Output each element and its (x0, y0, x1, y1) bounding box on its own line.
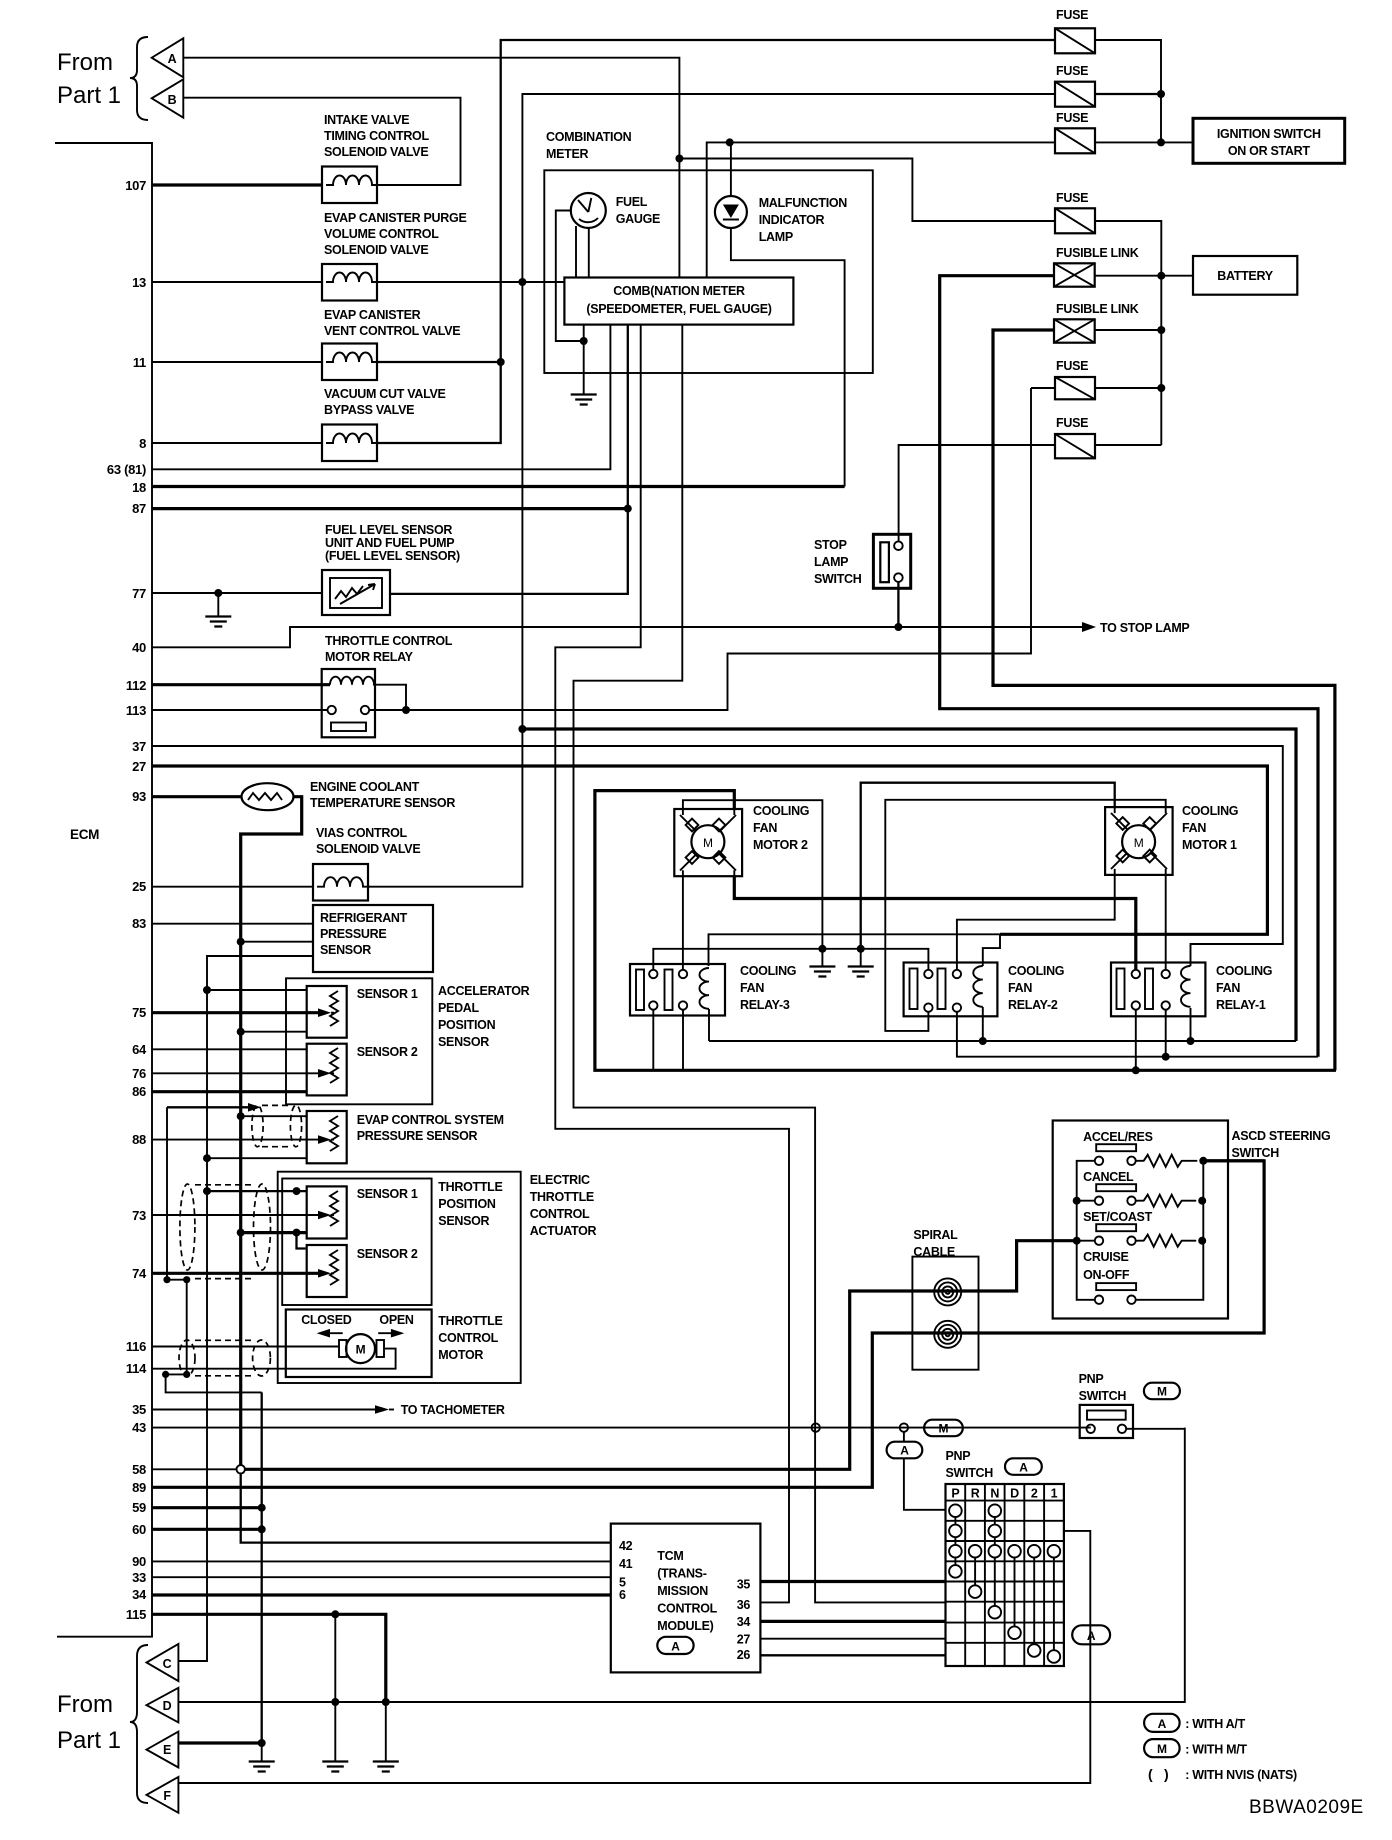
arrow into TPS sensor1 (318, 1211, 331, 1220)
ground (D-335) (322, 1762, 348, 1772)
svg-text:CONTROL: CONTROL (657, 1602, 717, 1616)
motor1 top-right wire to relay2 (885, 800, 1165, 1031)
node drain/TPS shield (163, 1276, 170, 1283)
node pin77 ground junction (214, 589, 222, 597)
wire FL1 out to battery (1095, 275, 1193, 277)
node pin11/fuse1 riser (497, 358, 505, 366)
svg-text:FUSIBLE LINK: FUSIBLE LINK (1056, 302, 1139, 316)
svg-text:RELAY-3: RELAY-3 (740, 998, 790, 1012)
svg-text:M: M (1157, 1385, 1167, 1399)
svg-text:SOLENOID VALVE: SOLENOID VALVE (324, 145, 428, 159)
svg-text:37: 37 (132, 739, 146, 754)
svg-text:COMB(NATION METER: COMB(NATION METER (613, 284, 745, 298)
svg-text:1: 1 (1051, 1487, 1058, 1501)
svg-text:SWITCH: SWITCH (814, 572, 862, 586)
connector circle at A/T branch (900, 1423, 908, 1431)
svg-text:COOLING: COOLING (753, 804, 809, 818)
svg-text:40: 40 (132, 640, 146, 655)
svg-text:60: 60 (132, 1522, 146, 1537)
wire F3 out to ignition switch (1095, 141, 1193, 143)
shield (throttle motor, dashed) (179, 1340, 195, 1376)
ground (E drain) (249, 1762, 275, 1772)
node TPS gnd b (293, 1229, 301, 1237)
svg-text:90: 90 (132, 1554, 146, 1569)
TPS sensor 1 (box) (307, 1186, 347, 1238)
svg-text:F: F (163, 1789, 171, 1803)
svg-text:FAN: FAN (1008, 981, 1032, 995)
wire pin13 to combination meter (377, 281, 564, 283)
relay3 coil bottom stub (708, 1009, 710, 1041)
node F5/battery bus (1157, 384, 1165, 392)
wire FL2 in (cooling fan feed) (993, 330, 1335, 1070)
PNP A grid box (946, 1484, 1064, 1666)
wire FL2 out (1095, 329, 1162, 331)
svg-text:(TRANS-: (TRANS- (657, 1567, 706, 1581)
wire F6 in (stop lamp feed) (899, 445, 1055, 541)
cooling fan relay-2 (904, 963, 998, 1017)
wire pin8 to fuse1 riser and up to fuse 1 (377, 40, 1055, 443)
legend oval A (1144, 1714, 1180, 1732)
combination meter inner box (564, 278, 793, 325)
svg-text:113: 113 (126, 703, 146, 718)
throttle control motor relay (box) (322, 669, 375, 737)
svg-text:A: A (168, 52, 177, 66)
arrow open (right) (378, 1332, 396, 1334)
svg-text:Part 1: Part 1 (57, 1727, 121, 1754)
wire E to drain bus (178, 1741, 261, 1744)
svg-text:A: A (1019, 1460, 1028, 1474)
svg-text:FAN: FAN (753, 821, 777, 835)
motor1 bottom-left to relay2 TC (957, 875, 1115, 971)
svg-text:MOTOR 1: MOTOR 1 (1182, 838, 1237, 852)
svg-text:ACCEL/RES: ACCEL/RES (1083, 1130, 1153, 1144)
node relay2 coil/bus (979, 1037, 987, 1045)
arrow TO STOP LAMP (1082, 622, 1096, 632)
node E/drain (258, 1739, 266, 1747)
battery box (1193, 256, 1297, 295)
node stop lamp switch / pin40 (894, 623, 902, 631)
svg-text:33: 33 (132, 1570, 146, 1585)
ground (combination meter) (571, 395, 597, 405)
svg-text:87: 87 (132, 501, 146, 516)
svg-text:VENT CONTROL VALVE: VENT CONTROL VALVE (324, 324, 460, 338)
svg-text:COOLING: COOLING (740, 964, 796, 978)
connector triangle E (147, 1732, 179, 1768)
connector triangle B (152, 79, 184, 117)
svg-text:GAUGE: GAUGE (616, 212, 660, 226)
fusible link FL2 (1054, 319, 1095, 342)
svg-text:83: 83 (132, 916, 146, 931)
intake valve timing control solenoid valve (coil) (322, 167, 377, 204)
evap pressure sensor 5V wire (207, 1157, 307, 1159)
thick bus 729 to relay coils (522, 729, 1296, 1041)
cooling fan relay-3 (630, 964, 725, 1016)
svg-text:RELAY-1: RELAY-1 (1216, 998, 1266, 1012)
node TPS 5V b (293, 1187, 301, 1195)
node drain/motor shield (183, 1371, 190, 1378)
svg-text:FUSE: FUSE (1056, 191, 1088, 205)
svg-text:FAN: FAN (1182, 821, 1206, 835)
fuel gauge left wire (556, 211, 584, 342)
ignition switch box (1193, 118, 1345, 163)
stop lamp switch bottom wire (897, 582, 899, 627)
arrow into APP sensor1 (318, 1008, 331, 1017)
MIL top wire to fuse3 (707, 142, 1055, 277)
arrow closed (left) (325, 1332, 343, 1334)
svg-text:From: From (57, 1691, 113, 1718)
svg-text:COOLING: COOLING (1008, 964, 1064, 978)
svg-text:PNP: PNP (946, 1449, 971, 1463)
throttle control motor symbol (346, 1334, 375, 1363)
node fuel gauge ground junction (580, 337, 588, 345)
fuel level sensor unit (box) (322, 570, 390, 615)
node evap gnd (237, 1112, 245, 1120)
svg-text:58: 58 (132, 1462, 146, 1477)
APP sensor1 ground wire (241, 1031, 307, 1033)
svg-text:FUSE: FUSE (1056, 64, 1088, 78)
svg-text:BYPASS VALVE: BYPASS VALVE (324, 403, 414, 417)
wire A-branch to fuse4 (679, 159, 1055, 222)
svg-text:D: D (163, 1699, 172, 1713)
svg-text:FUSIBLE LINK: FUSIBLE LINK (1056, 246, 1139, 260)
wire pin11 out (377, 361, 501, 363)
svg-text:114: 114 (126, 1361, 147, 1376)
evap canister vent control valve (coil) (322, 344, 377, 381)
svg-text:TIMING CONTROL: TIMING CONTROL (324, 129, 429, 143)
svg-text:75: 75 (132, 1005, 146, 1020)
svg-text:ECM: ECM (70, 827, 99, 842)
svg-text:ACCELERATOR: ACCELERATOR (438, 984, 530, 998)
ground (D-385) (373, 1762, 399, 1772)
svg-text:35: 35 (132, 1402, 146, 1417)
connector circle on pin43 wire (812, 1423, 820, 1431)
drain riser (166, 1107, 262, 1392)
svg-text:ACTUATOR: ACTUATOR (530, 1224, 597, 1238)
TCM 27 wire (760, 1638, 945, 1640)
vias control solenoid valve (coil) (313, 864, 368, 901)
svg-text:SENSOR: SENSOR (438, 1214, 489, 1228)
node F3/ignition bus (1157, 138, 1165, 146)
shield drain arrow (APP) (167, 1106, 248, 1108)
grid column chains (955, 1505, 1054, 1657)
electric throttle control actuator (outer box) (278, 1172, 521, 1383)
relay1 BL wire (1135, 1010, 1137, 1071)
arrow TO TACHOMETER (375, 1405, 389, 1414)
node ground 2 (857, 945, 865, 953)
svg-text:(SPEEDOMETER, FUEL GAUGE): (SPEEDOMETER, FUEL GAUGE) (586, 302, 771, 316)
wire vias to fuse2 riser (368, 94, 1055, 887)
refrigerant sensor ground wire (241, 941, 313, 943)
oval A tag below pin43 (903, 1432, 905, 1442)
svg-text:M: M (703, 836, 713, 850)
APP sensor 1 (box) (307, 986, 347, 1038)
svg-text:34: 34 (132, 1587, 147, 1602)
svg-text:A: A (671, 1639, 680, 1653)
svg-text:CONTROL: CONTROL (530, 1207, 590, 1221)
oval A tag in TCM (657, 1637, 693, 1654)
node thick bus / fuse2 riser (518, 725, 526, 733)
svg-text:SENSOR 2: SENSOR 2 (357, 1045, 418, 1059)
svg-text:35: 35 (737, 1578, 751, 1592)
pin 27 wire to relay3/relay2 coils (709, 934, 1001, 966)
wire D to PNP switch M (178, 1428, 1184, 1702)
svg-text:OPEN: OPEN (379, 1313, 413, 1327)
relay top ground wire (653, 949, 928, 971)
brace bottom (130, 1645, 148, 1803)
connector triangle C (147, 1644, 179, 1681)
ground (fan 2) (860, 949, 862, 966)
relay2 BC wire (957, 1012, 1318, 1057)
wire F1 out (1095, 40, 1161, 142)
wire F5 out (1095, 387, 1162, 389)
oval A tag on chain (1072, 1625, 1110, 1644)
svg-text:34: 34 (737, 1615, 751, 1629)
svg-text:TEMPERATURE SENSOR: TEMPERATURE SENSOR (310, 796, 455, 810)
fuse F1 (1055, 28, 1095, 53)
inner box ground stub (583, 325, 585, 394)
ECM left rail (55, 143, 152, 1637)
relay coil output jog (375, 685, 406, 710)
TPS sensor1 5V wire (207, 1190, 307, 1192)
relay2 coil bottom stub (982, 1007, 984, 1041)
svg-text:M: M (1157, 1742, 1167, 1756)
ASCD left bus (1077, 1161, 1095, 1300)
svg-text:VOLUME CONTROL: VOLUME CONTROL (324, 227, 439, 241)
svg-text:METER: METER (546, 147, 589, 161)
svg-text:POSITION: POSITION (438, 1018, 496, 1032)
svg-text:INDICATOR: INDICATOR (759, 213, 825, 227)
speedo signal wire 1 (to TCM 36) (555, 325, 789, 1603)
combination meter (outer box) (544, 170, 873, 373)
svg-text:ON OR START: ON OR START (1228, 144, 1311, 158)
svg-text:SENSOR 2: SENSOR 2 (357, 1247, 418, 1261)
svg-text:PNP: PNP (1079, 1372, 1104, 1386)
fuse F2 (1055, 82, 1095, 107)
node A-wire branch to fuse4 (675, 155, 683, 163)
svg-text:TCM: TCM (657, 1549, 683, 1563)
cooling fan relay-1 (1111, 963, 1205, 1017)
svg-text:SOLENOID VALVE: SOLENOID VALVE (324, 243, 428, 257)
svg-text:LAMP: LAMP (759, 230, 793, 244)
svg-text:115: 115 (126, 1607, 146, 1622)
wire F2 out (1095, 93, 1161, 95)
svg-text:74: 74 (132, 1266, 147, 1281)
node pin60/drain (258, 1525, 266, 1533)
node TPS 5V a (203, 1187, 211, 1195)
node FL2/battery bus (1157, 326, 1165, 334)
engine coolant temperature sensor (242, 783, 294, 810)
svg-text:59: 59 (132, 1500, 146, 1515)
svg-text:FUEL: FUEL (616, 195, 648, 209)
grid right wire to A-chain (1064, 1531, 1090, 1537)
malfunction indicator lamp (715, 196, 747, 228)
svg-text:CLOSED: CLOSED (301, 1313, 352, 1327)
connector circle pin58/sensor ground (237, 1465, 245, 1473)
evap control system pressure sensor (box) (307, 1111, 347, 1163)
svg-text:EVAP CONTROL SYSTEM: EVAP CONTROL SYSTEM (357, 1113, 504, 1127)
TCM 26 wire (760, 1654, 945, 1656)
svg-text:E: E (163, 1743, 171, 1757)
svg-text:CRUISE: CRUISE (1083, 1250, 1128, 1264)
oval M label (1144, 1383, 1180, 1400)
svg-text:B: B (168, 93, 177, 107)
TPS sensor2 top jog (297, 1233, 306, 1249)
svg-text:M: M (939, 1422, 949, 1436)
svg-text:POSITION: POSITION (438, 1197, 496, 1211)
svg-text:A: A (1087, 1629, 1096, 1643)
TCM box (611, 1524, 761, 1673)
svg-text:BATTERY: BATTERY (1217, 269, 1273, 283)
ASCD right bus (1136, 1161, 1204, 1300)
svg-text:Part 1: Part 1 (57, 82, 121, 109)
svg-text:SWITCH: SWITCH (1079, 1389, 1127, 1403)
node pin13/fuse2 junction (518, 278, 526, 286)
APP sensor1 5V wire (207, 989, 307, 991)
cooling fan motor 1 (1105, 807, 1173, 875)
TCM 34 wire (760, 1620, 945, 1623)
svg-text:STOP: STOP (814, 538, 847, 552)
node D/riser385 (382, 1698, 390, 1706)
node APP gnd (237, 1028, 245, 1036)
svg-text:93: 93 (132, 789, 146, 804)
svg-text:86: 86 (132, 1084, 146, 1099)
svg-text:TO STOP LAMP: TO STOP LAMP (1100, 621, 1189, 635)
svg-text:SENSOR 1: SENSOR 1 (357, 1187, 418, 1201)
svg-text:FUSE: FUSE (1056, 416, 1088, 430)
svg-text:11: 11 (133, 355, 146, 370)
svg-text:SWITCH: SWITCH (1232, 1146, 1280, 1160)
svg-text:63 (81): 63 (81) (107, 462, 146, 477)
svg-text:13: 13 (132, 275, 146, 290)
svg-text:INTAKE VALVE: INTAKE VALVE (324, 113, 409, 127)
svg-text:SENSOR: SENSOR (438, 1035, 489, 1049)
svg-text:ON-OFF: ON-OFF (1083, 1268, 1130, 1282)
fuel gauge signal riser (390, 325, 628, 594)
wire F to PNP switch A (178, 1537, 1090, 1783)
ASCD steering switch box (1053, 1121, 1228, 1319)
oval M tag on pin43 wire (924, 1420, 963, 1437)
svg-text:IGNITION SWITCH: IGNITION SWITCH (1217, 127, 1321, 141)
PNP M right wire (1126, 1428, 1185, 1430)
node relay1 coil/bus (1187, 1037, 1195, 1045)
evap pressure sensor ground wire (241, 1115, 307, 1117)
spiral coil 1 (934, 1278, 961, 1305)
node ground 1 (818, 945, 826, 953)
svg-text:PRESSURE SENSOR: PRESSURE SENSOR (357, 1129, 478, 1143)
spiral coil 2 (934, 1321, 961, 1348)
svg-text:From: From (57, 49, 113, 76)
wire F4 out (1095, 221, 1161, 445)
svg-text:26: 26 (737, 1648, 751, 1662)
svg-text:MOTOR 2: MOTOR 2 (753, 838, 808, 852)
svg-text:FAN: FAN (740, 981, 764, 995)
accelerator pedal position sensor box (286, 978, 432, 1104)
svg-text:25: 25 (132, 879, 146, 894)
brace top (130, 37, 148, 120)
wire A-tag to PNP A grid (904, 1458, 946, 1510)
node MIL branch (726, 138, 734, 146)
node APP 5V (203, 986, 211, 994)
motor2 return (thick) to relay1 (734, 876, 1136, 970)
svg-text:ASCD STEERING: ASCD STEERING (1232, 1129, 1331, 1143)
spiral cable box (912, 1257, 978, 1370)
speedo signal wire 2 (to PNP A grid N) (574, 325, 946, 1603)
cooling fan motor2 feed (thick) (595, 791, 1336, 1071)
fuel gauge (571, 193, 606, 228)
PNP switch M box (1080, 1405, 1133, 1438)
svg-text:ELECTRIC: ELECTRIC (530, 1173, 590, 1187)
svg-text:27: 27 (132, 759, 146, 774)
svg-text:EVAP CANISTER PURGE: EVAP CANISTER PURGE (324, 211, 466, 225)
cooling fan motor 2 (674, 809, 742, 876)
riser 385 ground (385, 1702, 387, 1761)
svg-text:M: M (356, 1343, 366, 1357)
stop lamp switch (box) (873, 534, 910, 588)
motor1 bottom-right to relay1 TC (1165, 875, 1167, 971)
throttle control motor (box) (286, 1310, 432, 1378)
svg-text:): ) (1164, 1766, 1168, 1782)
svg-text:THROTTLE: THROTTLE (438, 1314, 502, 1328)
svg-text:THROTTLE: THROTTLE (530, 1190, 594, 1204)
svg-text:MISSION: MISSION (657, 1584, 708, 1598)
svg-text:76: 76 (132, 1066, 146, 1081)
svg-text:COOLING: COOLING (1182, 804, 1238, 818)
node TPS gnd a (237, 1229, 245, 1237)
svg-text:THROTTLE: THROTTLE (438, 1180, 502, 1194)
svg-text:N: N (990, 1487, 999, 1501)
wire F6 out (1095, 444, 1161, 446)
svg-text:2: 2 (1031, 1487, 1038, 1501)
node relay output junction (402, 706, 410, 714)
svg-text:RELAY-2: RELAY-2 (1008, 998, 1058, 1012)
fuse F3 (1055, 128, 1095, 153)
fuse F6 (1055, 434, 1095, 458)
svg-text:36: 36 (737, 1598, 751, 1612)
svg-text:MALFUNCTION: MALFUNCTION (759, 196, 848, 210)
svg-text:PEDAL: PEDAL (438, 1001, 480, 1015)
svg-text:(FUEL LEVEL SENSOR): (FUEL LEVEL SENSOR) (325, 549, 460, 563)
TPS ground wire (241, 1231, 307, 1234)
svg-text:SPIRAL: SPIRAL (913, 1228, 958, 1242)
node refrigerant/bus (237, 938, 245, 946)
svg-text:SENSOR: SENSOR (320, 943, 371, 957)
APP sensor 2 (box) (307, 1044, 347, 1096)
TPS sensor 2 (box) (307, 1245, 347, 1297)
svg-text:43: 43 (132, 1420, 146, 1435)
svg-text:: WITH M/T: : WITH M/T (1185, 1743, 1247, 1757)
svg-text:A: A (900, 1444, 909, 1458)
oval A label (1005, 1458, 1042, 1475)
grid column lines (965, 1484, 1044, 1666)
svg-text:A: A (1158, 1717, 1167, 1731)
svg-text:THROTTLE CONTROL: THROTTLE CONTROL (325, 634, 453, 648)
vacuum cut valve bypass valve (coil) (322, 425, 377, 462)
svg-text:112: 112 (126, 678, 146, 693)
svg-text:FUEL LEVEL SENSOR: FUEL LEVEL SENSOR (325, 523, 452, 537)
svg-text:MODULE): MODULE) (657, 1619, 713, 1633)
refrigerant sensor 5V wire / C riser (178, 956, 313, 1661)
svg-text:FAN: FAN (1216, 981, 1240, 995)
svg-text:(: ( (1148, 1766, 1153, 1782)
svg-text:FUSE: FUSE (1056, 359, 1088, 373)
svg-text:REFRIGERANT: REFRIGERANT (320, 911, 408, 925)
svg-text:MOTOR RELAY: MOTOR RELAY (325, 650, 414, 664)
svg-text:UNIT AND FUEL PUMP: UNIT AND FUEL PUMP (325, 536, 454, 550)
node pin115/335 riser (331, 1610, 339, 1618)
svg-text:VIAS CONTROL: VIAS CONTROL (316, 826, 408, 840)
svg-text:COMBINATION: COMBINATION (546, 130, 632, 144)
pin 58 wire to spiral cable (245, 1241, 1077, 1470)
